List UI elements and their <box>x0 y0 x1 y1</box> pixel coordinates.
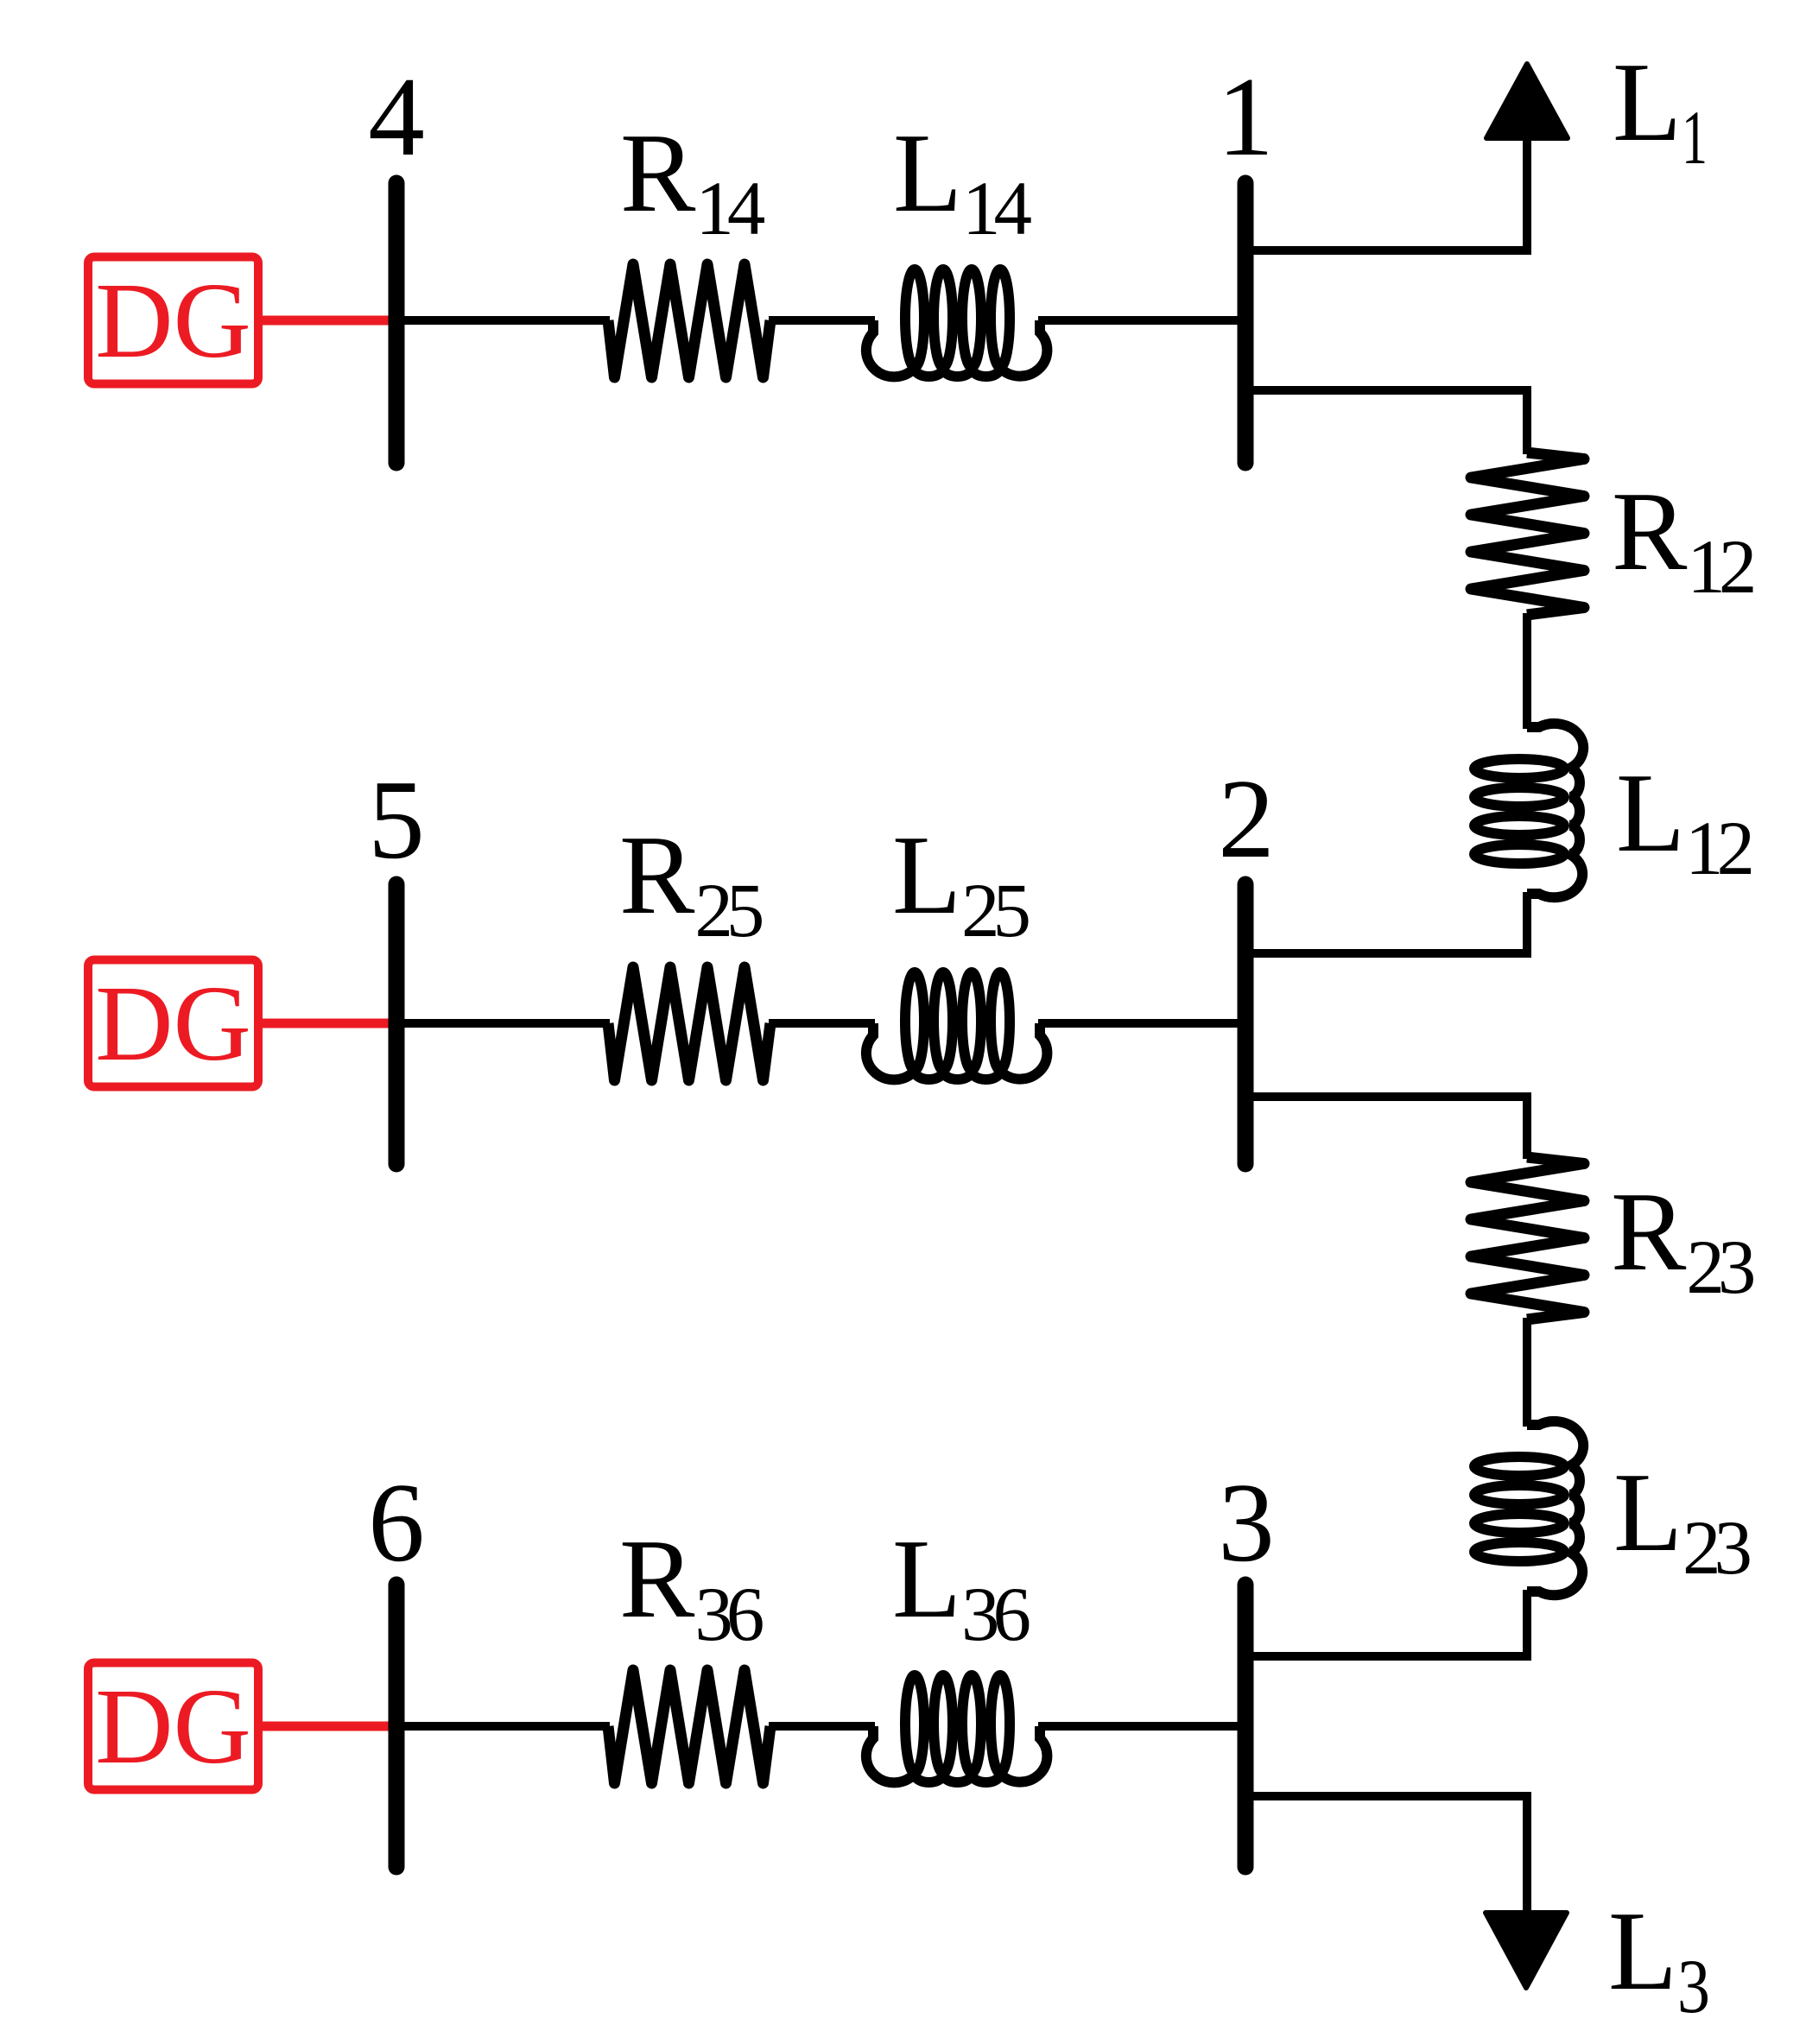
wire L12 to bus2 <box>1245 892 1527 953</box>
svg-text:5: 5 <box>368 757 425 883</box>
wire R23 to L23 <box>1523 1318 1531 1427</box>
wire bus6 to R36 <box>396 1722 610 1731</box>
inductor L23 <box>1474 1421 1583 1595</box>
inductor L12 <box>1474 724 1583 897</box>
wire L14 to bus 1 <box>1038 316 1245 325</box>
load L3 arrow wire <box>1245 1796 1527 1915</box>
inductor L14 <box>866 269 1048 377</box>
bus 6 <box>389 1585 405 1867</box>
wire bus1 to R12 <box>1245 390 1527 454</box>
bus 2 <box>1238 884 1254 1164</box>
wire bus2 to R23 <box>1245 1097 1527 1159</box>
svg-text:1: 1 <box>1217 54 1274 180</box>
resistor R25 <box>608 967 770 1080</box>
wire L36 to bus 3 <box>1038 1722 1245 1731</box>
bus 3 <box>1238 1585 1254 1867</box>
resistor R36 <box>608 1670 770 1783</box>
svg-text:3: 3 <box>1218 1460 1275 1585</box>
wire R36 to L36 <box>769 1722 875 1731</box>
wire DG3 to bus 6 (red) <box>258 1722 399 1731</box>
resistor R12 <box>1471 452 1584 615</box>
bus 1 <box>1238 183 1254 463</box>
svg-text:2: 2 <box>1218 756 1275 882</box>
load L1 arrow wire <box>1245 134 1527 250</box>
wire bus4 to R14 <box>396 316 610 325</box>
load L1 arrowhead <box>1486 64 1568 138</box>
wire L25 to bus 2 <box>1038 1019 1245 1028</box>
svg-text:4: 4 <box>368 54 425 180</box>
resistor R14 <box>608 264 770 377</box>
svg-text:6: 6 <box>368 1460 425 1585</box>
wire DG2 to bus 5 (red) <box>258 1019 399 1028</box>
bus 5 <box>389 884 405 1164</box>
load L3 arrowhead <box>1486 1913 1567 1988</box>
inductor L25 <box>866 972 1048 1079</box>
DG source 3 <box>88 1663 258 1790</box>
resistor R23 <box>1471 1157 1584 1319</box>
wire R14 to L14 <box>769 316 875 325</box>
wire R12 to L12 <box>1523 613 1531 729</box>
wire L23 to bus3 <box>1245 1590 1527 1656</box>
inductor L36 <box>866 1675 1048 1782</box>
wire R25 to L25 <box>769 1019 875 1028</box>
DG source 1 <box>88 257 258 384</box>
wire bus5 to R25 <box>396 1019 610 1028</box>
bus 4 <box>389 183 405 463</box>
DG source 2 <box>88 960 258 1087</box>
wire DG1 to bus 4 (red) <box>258 316 399 326</box>
